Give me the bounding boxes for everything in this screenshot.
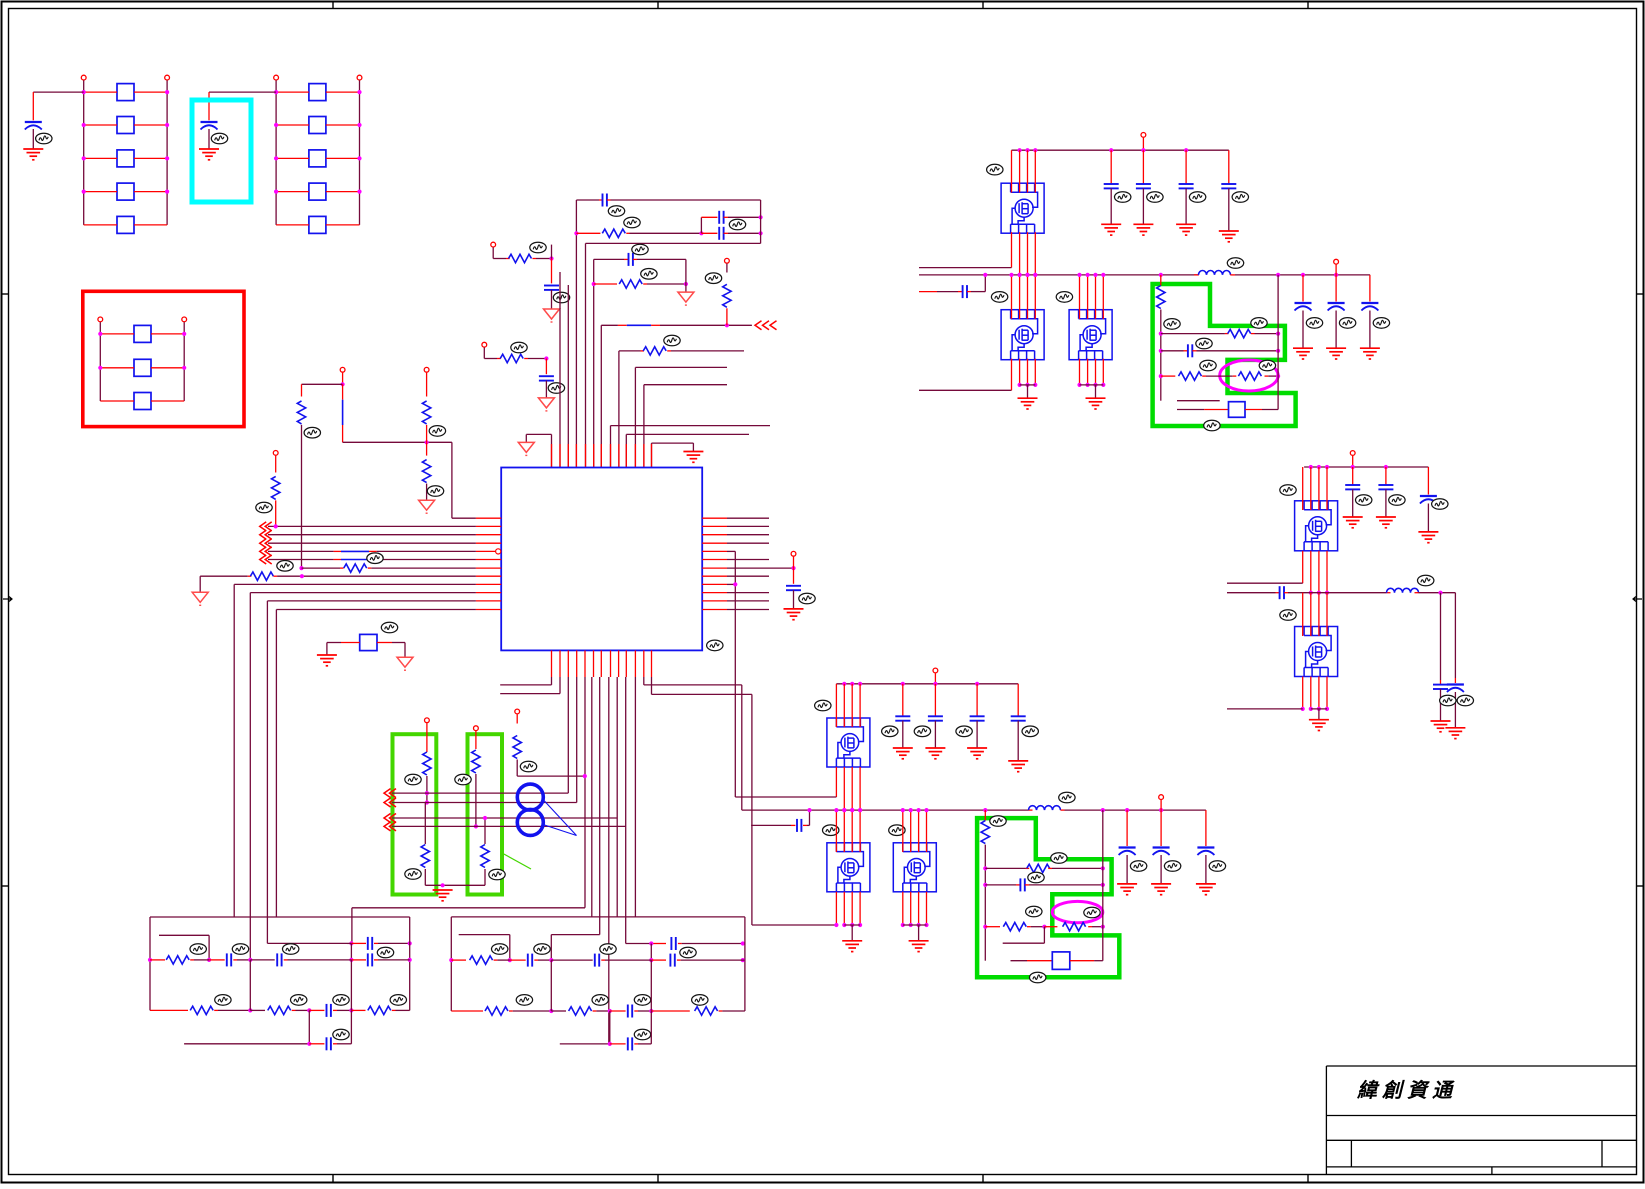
ground bbox=[1117, 884, 1137, 895]
wire Q7 top pin bbox=[1310, 467, 1312, 510]
wire rail right LRgreen bbox=[1102, 810, 1104, 961]
junction bbox=[1276, 273, 1280, 277]
junction bbox=[733, 582, 737, 586]
wire bbox=[807, 824, 810, 826]
component pack A4 bbox=[117, 183, 134, 200]
wire bbox=[327, 642, 341, 644]
wire bbox=[350, 1010, 352, 1043]
wire rowA LR bbox=[985, 867, 1025, 869]
wire bbox=[493, 258, 506, 260]
wire bus v3 bbox=[266, 601, 268, 944]
junction bbox=[425, 800, 429, 804]
connector circle 1 bbox=[517, 784, 543, 810]
wire bbox=[536, 258, 552, 260]
wire bbox=[475, 731, 477, 749]
label Q3 bbox=[1056, 292, 1072, 303]
wire blue segment bbox=[341, 559, 369, 561]
label C-R7 bbox=[799, 593, 815, 604]
wire rowB LR bbox=[985, 884, 1016, 886]
component pack B1 bbox=[309, 84, 326, 101]
junction bbox=[608, 1042, 612, 1046]
junction bbox=[842, 923, 846, 927]
chevrons g3 bbox=[384, 814, 396, 823]
label CLRR3 bbox=[1209, 861, 1225, 872]
ground bbox=[784, 609, 804, 620]
resistor R-TR4 bbox=[1238, 372, 1261, 380]
ground bbox=[909, 941, 929, 952]
wire bbox=[526, 433, 551, 435]
wire p3 bbox=[567, 677, 569, 793]
junction bbox=[349, 941, 353, 945]
svg-text:緯創資通: 緯創資通 bbox=[1356, 1079, 1457, 1102]
wire bbox=[984, 845, 986, 961]
wire Lrow2 bbox=[150, 1009, 188, 1011]
wire rail right loop1 bbox=[760, 200, 762, 243]
wire bbox=[650, 960, 652, 1011]
junction bbox=[759, 231, 763, 235]
wire Q2 bottom pin bbox=[1019, 359, 1021, 385]
capacitor CL5 bbox=[326, 1037, 328, 1050]
junction bbox=[1086, 383, 1090, 387]
junction bbox=[850, 808, 854, 812]
capacitor CA bbox=[25, 121, 42, 123]
wire bbox=[377, 559, 476, 561]
junction bbox=[1159, 332, 1163, 336]
junction bbox=[357, 123, 361, 127]
resistor R-TR1 bbox=[1157, 286, 1165, 309]
label C-A1 bbox=[553, 292, 569, 303]
wire cap B bbox=[208, 92, 210, 120]
wire bbox=[1352, 489, 1354, 517]
capacitor CLR1 bbox=[895, 715, 910, 717]
capacitor CL3 bbox=[367, 953, 369, 966]
junction bbox=[583, 774, 587, 778]
label RR3 bbox=[592, 995, 608, 1006]
wire bbox=[350, 960, 352, 1011]
wire Q5 top pin bbox=[851, 810, 853, 852]
junction bbox=[850, 808, 854, 812]
label RR1 bbox=[492, 944, 508, 955]
label CTR4 bbox=[1232, 192, 1248, 203]
wire bbox=[1262, 409, 1278, 411]
wire right row bbox=[727, 609, 769, 611]
wire bbox=[1197, 350, 1279, 352]
wire bbox=[275, 500, 277, 526]
port PTR2 bbox=[1334, 259, 1339, 264]
IC right pin stub bbox=[702, 609, 727, 611]
label Q4 bbox=[815, 700, 831, 711]
label CR0 bbox=[680, 947, 696, 958]
offpage chevrons row3 bbox=[260, 539, 272, 548]
border tick bottom bbox=[332, 1175, 334, 1183]
junction bbox=[1309, 465, 1313, 469]
wire bbox=[288, 959, 352, 961]
transistor Q4 bbox=[827, 718, 870, 767]
connector circle 2 bbox=[517, 809, 543, 835]
wire bbox=[326, 224, 360, 226]
offpage connector chevrons bbox=[755, 321, 777, 330]
wire Q6 top pin bbox=[926, 810, 928, 852]
label RL3 bbox=[291, 995, 307, 1006]
wire bbox=[1185, 188, 1187, 224]
wire bbox=[1027, 385, 1029, 398]
label R-GA2 bbox=[405, 869, 421, 880]
wire bbox=[276, 224, 309, 226]
wire p6 bbox=[591, 677, 593, 917]
label R-GA1 bbox=[405, 774, 421, 785]
capacitor CTR1 bbox=[1104, 183, 1119, 185]
port PL1 bbox=[340, 367, 345, 372]
junction bbox=[858, 808, 862, 812]
port PL2 bbox=[424, 367, 429, 372]
capacitor CL4 bbox=[326, 1004, 328, 1017]
IC right pin stub bbox=[702, 567, 727, 569]
label CTR1 bbox=[1115, 192, 1131, 203]
resistor R-t9 bbox=[643, 347, 666, 355]
wire row11 bbox=[276, 609, 476, 611]
wire bbox=[492, 247, 494, 258]
wire rail1 LR bbox=[836, 683, 1018, 685]
wire bbox=[500, 693, 560, 695]
capacitor C-par2 bbox=[718, 227, 720, 240]
capacitor CL1 bbox=[226, 953, 228, 966]
junction bbox=[1033, 273, 1037, 277]
wire bbox=[1206, 375, 1233, 377]
wire bbox=[976, 721, 978, 748]
label CLR2 bbox=[914, 726, 930, 737]
wire bbox=[937, 291, 958, 293]
wire bbox=[601, 324, 618, 326]
offpage chevrons row1 bbox=[260, 522, 272, 531]
wire bbox=[1369, 311, 1371, 349]
wire blue segment bbox=[341, 550, 369, 552]
junction bbox=[1325, 591, 1329, 595]
junction bbox=[1301, 707, 1305, 711]
label RL1 bbox=[190, 944, 206, 955]
wire IC pin T11 bbox=[634, 367, 636, 467]
capacitor CLRR2 bbox=[1153, 846, 1170, 848]
wire Q5 top pin bbox=[835, 810, 837, 852]
border tick bottom bbox=[657, 1175, 659, 1183]
IC top pin stub bbox=[551, 444, 553, 468]
capacitor CTRR3 bbox=[1361, 302, 1378, 304]
wire Q2 top pin bbox=[1011, 275, 1013, 319]
ground bbox=[967, 748, 987, 759]
junction bbox=[1033, 273, 1037, 277]
IC bottom pin stub bbox=[625, 650, 627, 677]
wire Q4 bottom pin bbox=[851, 767, 853, 810]
label CR5 bbox=[634, 1029, 650, 1040]
label R-LR2 bbox=[1051, 853, 1067, 864]
wire bbox=[302, 383, 343, 385]
junction bbox=[1033, 148, 1037, 152]
IC right pin stub bbox=[702, 525, 727, 527]
junction bbox=[649, 958, 653, 962]
junction bbox=[1101, 925, 1105, 929]
component pack A1 bbox=[117, 84, 134, 101]
inductor L3 bbox=[1387, 588, 1419, 592]
wire bbox=[528, 358, 546, 360]
capacitor CTR4 bbox=[1221, 183, 1236, 185]
wire cap3 TR bbox=[1185, 150, 1187, 184]
junction bbox=[274, 156, 278, 160]
wire bbox=[984, 810, 986, 821]
wire bbox=[1335, 265, 1337, 275]
wire bbox=[637, 258, 686, 260]
wire bbox=[426, 425, 428, 442]
wire right row7 bbox=[727, 567, 794, 569]
wire Rrow3 bbox=[560, 1043, 610, 1045]
wire right row6 bbox=[727, 559, 769, 561]
junction bbox=[165, 90, 169, 94]
label CTR2 bbox=[1147, 192, 1163, 203]
junction bbox=[917, 923, 921, 927]
capacitor CLR4 bbox=[1011, 715, 1026, 717]
junction bbox=[684, 282, 688, 286]
wire Q2 bottom pin bbox=[1027, 359, 1029, 385]
junction bbox=[901, 682, 905, 686]
wire bbox=[84, 157, 117, 159]
border tick left bbox=[2, 293, 9, 295]
junction bbox=[983, 866, 987, 870]
wire Q7 pin g bbox=[1302, 551, 1304, 583]
capacitor CTRR1 bbox=[1295, 302, 1312, 304]
wire bbox=[134, 191, 167, 193]
junction bbox=[274, 123, 278, 127]
junction bbox=[1276, 374, 1280, 378]
label CFR4 bbox=[1440, 695, 1456, 706]
wire Q7 bottom pin bbox=[1310, 551, 1312, 593]
IC right pin stub bbox=[702, 534, 727, 536]
label CTRR2 bbox=[1339, 318, 1355, 329]
wire Q4 top pin bbox=[843, 684, 845, 727]
wire bbox=[484, 869, 486, 885]
junction bbox=[274, 90, 278, 94]
inductor L1 bbox=[1199, 271, 1231, 275]
IC bottom pin stub bbox=[610, 650, 612, 677]
wire Q8 bottom pin bbox=[1310, 677, 1312, 709]
component pack B4 bbox=[309, 183, 326, 200]
chevrons g4 bbox=[384, 822, 396, 831]
junction bbox=[1317, 707, 1321, 711]
port PCB bbox=[182, 317, 187, 322]
wire rowA TR bbox=[1161, 333, 1225, 335]
wire phase1 LR bbox=[735, 796, 836, 798]
label R-GB2 bbox=[489, 869, 505, 880]
wire bbox=[424, 803, 426, 845]
label GB1 bbox=[381, 622, 397, 633]
junction bbox=[425, 440, 429, 444]
junction bbox=[924, 923, 928, 927]
wire bbox=[1160, 855, 1162, 884]
wire Q7 bottom pin bbox=[1318, 551, 1320, 593]
label CLR1 bbox=[882, 726, 898, 737]
capacitor CLR3 bbox=[970, 715, 985, 717]
wire bbox=[650, 1011, 652, 1044]
wire Q7 bottom pin bbox=[1326, 551, 1328, 593]
junction bbox=[1184, 148, 1188, 152]
wire bbox=[1352, 456, 1354, 467]
port PLR1 bbox=[933, 668, 938, 673]
label RR2 bbox=[516, 995, 532, 1006]
IC left pin stub bbox=[476, 534, 501, 536]
wire cap A bbox=[32, 92, 34, 120]
wire bbox=[326, 191, 360, 193]
wire bbox=[249, 960, 251, 1011]
wire bbox=[1255, 333, 1279, 335]
wire bbox=[1454, 593, 1456, 678]
wire rail2 right LR bbox=[1065, 809, 1206, 811]
junction bbox=[1025, 273, 1029, 277]
wire right row bbox=[727, 542, 769, 544]
wire bbox=[1288, 592, 1387, 594]
wire bbox=[1419, 592, 1456, 594]
junction bbox=[549, 1009, 553, 1013]
wire bbox=[1031, 926, 1045, 928]
wire p5 bbox=[584, 677, 586, 908]
wire bbox=[647, 283, 686, 285]
wire p13 bbox=[651, 677, 653, 694]
junction bbox=[1317, 591, 1321, 595]
capacitor CR0 bbox=[670, 937, 672, 950]
junction bbox=[725, 323, 729, 327]
junction bbox=[901, 923, 905, 927]
junction bbox=[842, 808, 846, 812]
component pack B3 bbox=[309, 150, 326, 167]
wire bbox=[1302, 311, 1304, 349]
wire Q2 pin bbox=[1011, 359, 1013, 391]
wire bbox=[378, 942, 410, 944]
ground bbox=[538, 398, 554, 408]
wire bbox=[851, 925, 853, 941]
wire loop1 top bbox=[576, 199, 599, 201]
capacitor C-par1 bbox=[718, 211, 720, 224]
junction bbox=[1033, 383, 1037, 387]
resistor R-pullup1 bbox=[723, 284, 731, 307]
wire Q6 top pin bbox=[918, 810, 920, 852]
wire p7 bbox=[599, 677, 601, 935]
transistor Q2 bbox=[1001, 310, 1044, 360]
IC right pin stub bbox=[702, 583, 727, 585]
wire Q7 top pin bbox=[1318, 467, 1320, 510]
wire row8 bbox=[234, 583, 476, 585]
wire right row bbox=[727, 534, 769, 536]
wire bbox=[551, 290, 553, 309]
wire rowB TR bbox=[1161, 350, 1184, 352]
wire Q8 bottom pin bbox=[1326, 677, 1328, 709]
capacitor CLRR3 bbox=[1197, 846, 1214, 848]
ground bbox=[925, 748, 945, 759]
IC left pin stub bbox=[476, 542, 501, 544]
wire Q1 top pin bbox=[1027, 150, 1029, 192]
title block bbox=[1326, 1066, 1636, 1175]
wire rail loop3 / IC pin T6 bbox=[593, 259, 595, 467]
highlight green path upper bbox=[1153, 284, 1296, 426]
wire bbox=[277, 575, 476, 577]
IC bottom pin stub bbox=[643, 650, 645, 677]
wire bbox=[100, 333, 134, 335]
wire rail1 FR bbox=[1304, 466, 1428, 468]
capacitor CTRR2 bbox=[1328, 302, 1345, 304]
junction bbox=[834, 923, 838, 927]
wire rail2 FR bbox=[1227, 592, 1276, 594]
wire bbox=[1204, 409, 1228, 411]
label GB2 bbox=[1204, 420, 1220, 431]
highlight green rectangle B bbox=[468, 734, 503, 894]
wire bbox=[644, 684, 742, 686]
label Q1 bbox=[987, 164, 1003, 175]
wire rail right TRgreen bbox=[1277, 275, 1279, 410]
wire bbox=[594, 283, 617, 285]
wire bbox=[984, 275, 986, 292]
junction bbox=[909, 923, 913, 927]
wire capline LR bbox=[751, 824, 791, 826]
label CTRR3 bbox=[1373, 318, 1389, 329]
wire bbox=[726, 308, 728, 325]
wire Q6 bottom pin bbox=[910, 892, 912, 925]
label CFR5 bbox=[1457, 695, 1473, 706]
IC left pin stub bbox=[476, 550, 501, 552]
wire bbox=[209, 91, 276, 93]
port PR1 bbox=[725, 258, 730, 263]
wire p1 bbox=[551, 677, 553, 685]
junction bbox=[544, 356, 548, 360]
wire bbox=[1160, 275, 1162, 286]
wire bbox=[425, 884, 485, 886]
wire IC pin T12 bbox=[643, 385, 645, 468]
junction bbox=[1101, 808, 1105, 812]
junction bbox=[441, 883, 445, 887]
wire bbox=[404, 643, 406, 658]
junction bbox=[1025, 383, 1029, 387]
transistor Q6 bbox=[893, 843, 936, 892]
wire rail R of block L bbox=[409, 917, 411, 1010]
wire bbox=[918, 925, 920, 941]
junction bbox=[1018, 273, 1022, 277]
IC top pin stub bbox=[643, 444, 645, 468]
wire bbox=[484, 358, 497, 360]
wire p4 bbox=[576, 677, 578, 803]
capacitor CTR3 bbox=[1179, 183, 1194, 185]
wire Q8 top pin bbox=[1302, 593, 1304, 636]
resistor R-L4 bbox=[272, 476, 280, 499]
wire Q3 top pin bbox=[1095, 275, 1097, 319]
wire Rrow2 bbox=[451, 1010, 483, 1012]
wire Q5 bottom pin bbox=[851, 892, 853, 925]
wire bbox=[1335, 311, 1337, 349]
label Q7 bbox=[1280, 485, 1296, 496]
IC bottom pin stub bbox=[651, 650, 653, 677]
component pack C2 bbox=[134, 359, 151, 376]
wire bbox=[1027, 960, 1052, 962]
wire bbox=[1017, 721, 1019, 761]
wire IC pin T7 bbox=[600, 325, 602, 467]
wire bbox=[377, 642, 392, 644]
label CLRR2 bbox=[1164, 861, 1180, 872]
wire Q5 bottom pin bbox=[843, 892, 845, 925]
resistor RL1 bbox=[166, 956, 189, 964]
IC right pin stub bbox=[702, 517, 727, 519]
wire bbox=[605, 959, 651, 961]
wire cap FR3 bbox=[1427, 467, 1429, 495]
wire IC pin T8 bbox=[610, 426, 612, 468]
wire bbox=[751, 694, 753, 925]
IC top pin stub bbox=[600, 444, 602, 468]
port PAB bbox=[165, 75, 170, 80]
wire row1 bbox=[268, 525, 476, 527]
wire cap LR bbox=[934, 684, 936, 717]
port PLR2 bbox=[1159, 795, 1164, 800]
